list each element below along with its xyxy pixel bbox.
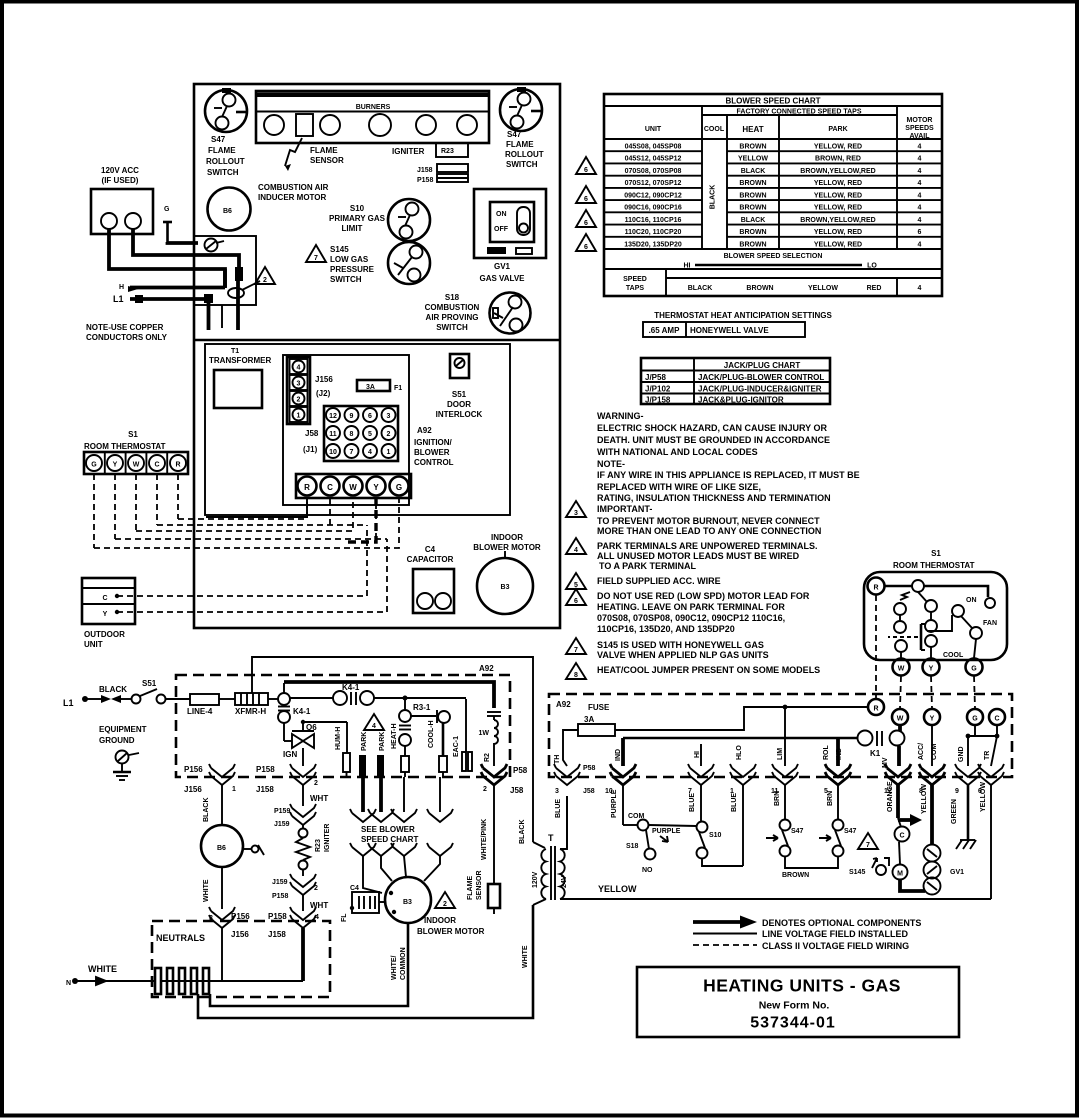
svg-text:2: 2 [483,786,487,793]
svg-text:OUTDOOR: OUTDOOR [84,630,125,639]
svg-text:LOW GAS: LOW GAS [330,255,369,264]
screw terminal [205,239,225,252]
svg-text:ROLLOUT: ROLLOUT [206,157,245,166]
svg-text:New Form No.: New Form No. [759,1000,830,1012]
wire ground G to screw terminal [168,242,199,243]
svg-text:S51: S51 [452,390,467,399]
svg-text:BLACK: BLACK [203,798,210,823]
svg-text:.65 AMP: .65 AMP [649,326,680,335]
pin GND 9 [951,746,981,840]
capacitor C4 label [407,545,454,564]
blower speed chart [604,94,942,296]
wire to heavy top bus [283,683,285,693]
svg-text:TRANSFORMER: TRANSFORMER [209,356,271,365]
indoor blower motor label [417,916,485,936]
svg-text:24V: 24V [561,875,568,888]
pin ACC 8 [918,743,945,844]
capacitor C4 [413,569,454,613]
junction internal drop wires [221,305,223,328]
svg-text:S18: S18 [445,293,460,302]
svg-text:SWITCH: SWITCH [330,275,362,284]
svg-text:070S08, 070SP08: 070S08, 070SP08 [625,168,682,175]
gas valve GV1 label [479,262,525,283]
wire W to MV [899,725,900,766]
svg-text:JACK/PLUG-INDUCER&IGNITER: JACK/PLUG-INDUCER&IGNITER [698,385,822,394]
svg-text:HLO: HLO [736,745,743,760]
pin HLO 1 [730,745,756,866]
svg-text:110CP16, 135D20, AND 135DP20: 110CP16, 135D20, AND 135DP20 [597,624,735,634]
terminal Y [924,709,940,725]
svg-text:LINE-4: LINE-4 [187,707,213,716]
svg-text:R23: R23 [315,839,322,852]
outdoor unit box [82,578,135,624]
contact K4-1 vertical [278,707,311,724]
svg-text:BRN: BRN [774,791,781,806]
svg-text:COMMON: COMMON [400,947,407,980]
warning triangle 6 row 110C16 [576,210,596,227]
pressure switch S18 low [623,813,668,874]
connector P158/J158 pin2 igniter [256,764,318,794]
svg-text:BLOWER MOTOR: BLOWER MOTOR [473,543,541,552]
wire XFMR-H to rail [252,657,533,842]
svg-text:IGNITION/: IGNITION/ [414,438,453,447]
thermostat aux contacts [894,603,907,658]
svg-text:PARK: PARK [828,126,847,133]
svg-text:PURPLE: PURPLE [652,828,681,835]
pin ROL 5 [823,738,851,820]
node G with ground [163,206,172,243]
junction box [194,236,256,305]
svg-text:W: W [897,716,904,723]
wire black to inducer B6 [203,785,222,825]
connector P158/J158 pin4 neutral [268,907,319,981]
svg-text:7: 7 [314,255,318,262]
transformer T1 label [209,348,271,365]
svg-text:2: 2 [263,277,267,284]
wire R bus [178,497,307,519]
burner port 1 [264,115,284,135]
svg-text:BLACK: BLACK [519,820,526,845]
svg-text:7: 7 [350,449,354,456]
warning triangle 6 row 070S08 [576,157,596,174]
svg-text:IGN: IGN [283,750,297,759]
svg-text:C: C [327,483,333,492]
pin IND 10 [605,738,636,825]
svg-text:8: 8 [350,431,354,438]
door interlock S51 [436,354,483,419]
svg-text:1: 1 [297,413,301,420]
svg-text:4: 4 [918,180,922,187]
svg-text:T1: T1 [231,348,239,355]
svg-text:G: G [164,206,170,213]
svg-text:YELLOW: YELLOW [921,784,928,814]
svg-text:GV1: GV1 [494,262,511,271]
flame sense resistor R2 1W [479,712,502,766]
svg-text:BROWN: BROWN [739,229,766,236]
svg-text:BRN: BRN [827,791,834,806]
svg-text:6: 6 [584,196,588,203]
wire thermostat R to control [875,595,877,698]
svg-text:L1: L1 [113,294,124,304]
svg-text:Y: Y [373,483,379,492]
svg-text:COM: COM [931,744,938,761]
svg-text:COOL: COOL [943,652,964,659]
svg-text:WHITE: WHITE [203,879,210,902]
svg-text:REPLACED WITH WIRE OF LIKE SIZ: REPLACED WITH WIRE OF LIKE SIZE, [597,482,761,492]
wire fuse to TH [563,730,578,766]
wire nut [235,267,243,281]
svg-text:6: 6 [584,244,588,251]
svg-text:4: 4 [918,217,922,224]
svg-text:WHITE/: WHITE/ [391,955,398,980]
svg-text:NOTE-: NOTE- [597,459,625,469]
wire thermostat W to control [900,676,901,708]
wire thermostat W drop [135,474,137,531]
speed tap wire yellow [391,777,417,822]
svg-text:(IF USED): (IF USED) [102,176,139,185]
svg-text:090C16, 090CP16: 090C16, 090CP16 [624,205,682,212]
pin TR 6 [978,751,1004,898]
svg-text:IGNITER: IGNITER [324,824,331,852]
wire thermostat Y to control [931,676,932,708]
svg-text:W: W [133,462,140,469]
wire N white [66,964,155,987]
svg-text:R3-1: R3-1 [413,703,431,712]
svg-text:B6: B6 [217,845,226,852]
svg-text:HEATING UNITS - GAS: HEATING UNITS - GAS [703,976,901,996]
speed tap wire black [368,777,394,822]
limit switch S47 second [819,820,857,857]
svg-text:W: W [898,666,905,673]
warning triangle 3 important [566,501,586,517]
wire Y heavy stub [345,497,376,542]
connector P156/J156 pin1 inducer [184,764,236,794]
warning triangle 2 (line voltage) [255,267,275,284]
connector P159/J159 [274,804,316,828]
svg-text:BROWN,YELLOW,RED: BROWN,YELLOW,RED [800,217,875,224]
svg-text:LIMIT: LIMIT [342,224,363,233]
terminal R [868,699,884,715]
svg-text:J159: J159 [272,879,288,886]
svg-text:A92: A92 [556,700,571,709]
wire outdoor C [117,525,367,596]
svg-text:BLUE: BLUE [689,793,696,812]
svg-text:4: 4 [918,192,922,199]
indoor blower motor label [473,533,541,552]
svg-text:S1: S1 [128,430,138,439]
svg-text:FL: FL [341,913,348,922]
svg-text:S10: S10 [350,204,365,213]
connector J158/P158 [417,164,468,184]
terminal W [892,709,908,725]
svg-text:T: T [548,833,554,843]
svg-text:BROWN: BROWN [739,241,766,248]
svg-text:YELLOW: YELLOW [980,782,987,812]
svg-text:Y: Y [929,666,934,673]
warning triangle 4 park terminals [364,714,384,730]
resistor HEAT-H [391,723,409,777]
svg-text:HI: HI [694,751,701,758]
svg-text:J/P158: J/P158 [645,396,671,405]
svg-text:YELLOW: YELLOW [598,884,637,894]
svg-text:PRESSURE: PRESSURE [330,265,375,274]
svg-text:J58: J58 [583,788,595,795]
pin HI 7 [688,744,714,822]
svg-text:S145 IS USED WITH HONEYWELL GA: S145 IS USED WITH HONEYWELL GAS [597,640,764,650]
thermostat terminal G [966,659,983,676]
thermostat heat anticipator node [885,580,924,600]
warning triangle 7 s145 [566,638,586,654]
wire 120V left to junction [109,229,225,288]
connector J156 (J2) [287,357,333,424]
pin LIM 11 [771,748,798,820]
svg-text:J158: J158 [256,785,274,794]
fuse 3A [578,703,615,736]
svg-text:JACK&PLUG-IGNITOR: JACK&PLUG-IGNITOR [698,396,784,405]
svg-text:B6: B6 [223,208,232,215]
svg-text:R: R [175,462,180,469]
thermostat terminal R [868,578,885,595]
svg-text:CAPACITOR: CAPACITOR [407,555,454,564]
svg-text:GAS VALVE: GAS VALVE [479,274,525,283]
svg-text:Y: Y [930,716,935,723]
svg-text:INDOOR: INDOOR [491,533,523,542]
combustion air inducer motor B6 [208,188,251,231]
svg-text:P158: P158 [417,177,433,184]
jack plug chart [641,358,830,405]
neutral bus [161,980,303,982]
wire C bus [157,497,367,525]
svg-text:3A: 3A [366,384,375,391]
svg-text:FUSE: FUSE [588,703,610,712]
burner port 5 [457,115,477,135]
gas valve terminal M [893,842,926,891]
wire thermostat C drop [156,474,158,525]
svg-text:045S12, 045SP12: 045S12, 045SP12 [625,156,682,163]
pin MV 12 [882,757,911,818]
burners box [256,91,489,143]
svg-text:1: 1 [232,786,236,793]
svg-text:WHITE: WHITE [522,945,529,968]
warning triangle 6 row 135D20 [576,234,596,251]
warning triangle 4 park [566,538,586,554]
fuse F1 3A [357,380,402,392]
room thermostat S1 label [893,549,975,570]
svg-text:ROLLOUT: ROLLOUT [505,150,544,159]
connector J58 (J1) 12 pin [303,406,398,461]
svg-text:4: 4 [918,241,922,248]
wire R to cabinet dashed [790,706,868,708]
120V ACC label [101,166,139,185]
svg-text:11: 11 [329,431,337,438]
svg-text:2: 2 [314,885,318,892]
svg-text:4: 4 [918,285,922,292]
warning triangle 2 motor [435,892,455,908]
connector P156/J156 pin3 neutral [209,907,250,981]
svg-text:YELLOW, RED: YELLOW, RED [814,180,862,187]
disconnect lever [228,281,260,298]
warning triangle 5 field supplied [566,573,586,589]
wire thermostat G to control [974,676,975,708]
equipment ground label [99,725,147,745]
warning triangle 6 red lead [566,589,586,605]
svg-text:5: 5 [368,431,372,438]
svg-text:BURNERS: BURNERS [356,104,391,111]
svg-text:YELLOW, RED: YELLOW, RED [814,205,862,212]
svg-text:P158: P158 [268,912,287,921]
svg-text:WHT: WHT [310,794,328,803]
svg-text:070S08, 070SP08, 090C12, 090CP: 070S08, 070SP08, 090C12, 090CP12 110C16, [597,613,785,623]
terminal C [989,709,1005,725]
terminal G [967,709,983,725]
limit switch S10 [649,822,743,867]
svg-text:S47: S47 [791,828,804,835]
svg-text:SPEED: SPEED [623,276,647,283]
svg-text:BROWN: BROWN [739,144,766,151]
warning triangle 6 row 090C12 [576,186,596,203]
svg-text:NO: NO [642,867,653,874]
svg-text:R23: R23 [441,148,454,155]
svg-text:537344-01: 537344-01 [750,1015,836,1032]
wire outdoor Y [117,539,387,612]
svg-text:6: 6 [368,413,372,420]
svg-text:2: 2 [297,397,301,404]
svg-text:BROWN: BROWN [739,180,766,187]
svg-text:SPEED CHART: SPEED CHART [361,835,418,844]
A92 control dashed box left [176,675,510,777]
A92 control dashed box right [549,694,1012,777]
combustion air inducer motor label [258,183,329,202]
igniter circuit WHT [303,785,328,806]
svg-text:BLOWER SPEED CHART: BLOWER SPEED CHART [725,97,820,106]
flame sensor lead and label [285,138,344,171]
svg-text:BROWN: BROWN [739,205,766,212]
svg-text:P158: P158 [256,765,275,774]
svg-text:R: R [304,483,310,492]
svg-text:ON: ON [966,597,977,604]
svg-text:G: G [396,483,402,492]
svg-text:BROWN: BROWN [782,872,809,879]
burner port 2 [320,115,340,135]
svg-text:2: 2 [387,431,391,438]
heavy bus to flame circuit [284,682,494,708]
wire Y bus [115,497,387,539]
indoor blower motor B3 [477,551,533,614]
svg-text:BLOWER MOTOR: BLOWER MOTOR [417,927,485,936]
svg-text:M: M [897,871,903,878]
neutral terminals [155,968,209,994]
pressure switch S145 [849,858,889,876]
svg-text:GREEN: GREEN [951,799,958,824]
svg-text:FLAME: FLAME [310,146,338,155]
svg-text:135D20, 135DP20: 135D20, 135DP20 [624,241,682,248]
svg-text:MOTOR: MOTOR [907,117,933,124]
svg-text:(J1): (J1) [303,445,318,454]
svg-text:S145: S145 [330,245,349,254]
thermostat fan switch [952,605,997,658]
cabinet outline [194,84,560,628]
svg-text:P156: P156 [184,765,203,774]
svg-text:9: 9 [350,413,354,420]
svg-text:EQUIPMENT: EQUIPMENT [99,725,147,734]
svg-text:C4: C4 [425,545,436,554]
svg-text:PRIMARY GAS: PRIMARY GAS [329,214,386,223]
svg-text:A92: A92 [417,426,432,435]
svg-text:EAC-1: EAC-1 [453,736,460,757]
svg-text:S18: S18 [626,843,639,850]
svg-text:R: R [873,706,878,713]
legend line voltage [693,929,908,939]
gas valve GV1 [924,845,965,895]
svg-text:ROOM THERMOSTAT: ROOM THERMOSTAT [893,561,975,570]
svg-text:120V: 120V [532,871,539,888]
svg-text:BLUE: BLUE [731,793,738,812]
svg-text:CONTROL: CONTROL [414,458,454,467]
svg-text:C: C [899,833,904,840]
svg-text:J58: J58 [305,429,319,438]
svg-text:IMPORTANT-: IMPORTANT- [597,504,652,514]
svg-text:R: R [873,585,878,592]
flame rollout switch S47 left [205,88,247,177]
120V ACC box [91,189,153,234]
svg-text:J159: J159 [274,821,290,828]
svg-text:WHITE: WHITE [88,964,117,974]
svg-text:3A: 3A [584,715,594,724]
svg-text:GND: GND [958,746,965,762]
warning note text block [597,411,860,675]
thermostat heat contacts [918,592,937,658]
flame sensor [467,870,500,914]
svg-text:B3: B3 [501,584,510,591]
cabinet divider [194,339,560,342]
combustion air proving switch S18 [490,293,531,334]
svg-text:S145: S145 [849,869,865,876]
svg-text:K4-1: K4-1 [342,683,360,692]
connector J159/P158 pin2 [272,870,328,911]
svg-text:4: 4 [574,547,578,554]
svg-text:BLACK: BLACK [741,168,766,175]
svg-text:CLASS II VOLTAGE FIELD WIRING: CLASS II VOLTAGE FIELD WIRING [762,941,909,951]
primary gas limit S10 label [329,204,386,233]
svg-text:BLOWER: BLOWER [414,448,450,457]
svg-text:6: 6 [584,167,588,174]
svg-text:S1: S1 [931,549,941,558]
svg-text:LIM: LIM [777,748,784,760]
svg-text:J156: J156 [315,375,333,384]
fuse link XFMR-H [219,693,268,716]
svg-text:S47: S47 [211,135,226,144]
svg-text:110C20, 110CP20: 110C20, 110CP20 [625,229,682,236]
svg-text:R2: R2 [484,753,491,762]
svg-text:PARK: PARK [379,732,386,751]
svg-text:(J2): (J2) [316,389,331,398]
svg-text:4: 4 [368,449,372,456]
room thermostat S1 body [864,572,1007,660]
svg-text:120V ACC: 120V ACC [101,166,139,175]
transformer T core [548,833,555,900]
svg-text:SENSOR: SENSOR [310,156,344,165]
svg-text:FLAME: FLAME [208,146,236,155]
limit switch S47 first [766,820,838,880]
svg-text:6: 6 [584,220,588,227]
svg-text:2: 2 [314,780,318,787]
svg-text:J58: J58 [510,786,524,795]
svg-text:C: C [154,462,159,469]
thermostat heat anticipation settings [643,311,832,337]
svg-text:IND: IND [615,749,622,761]
svg-text:HEAT-H: HEAT-H [391,723,398,749]
svg-text:4: 4 [297,365,301,372]
